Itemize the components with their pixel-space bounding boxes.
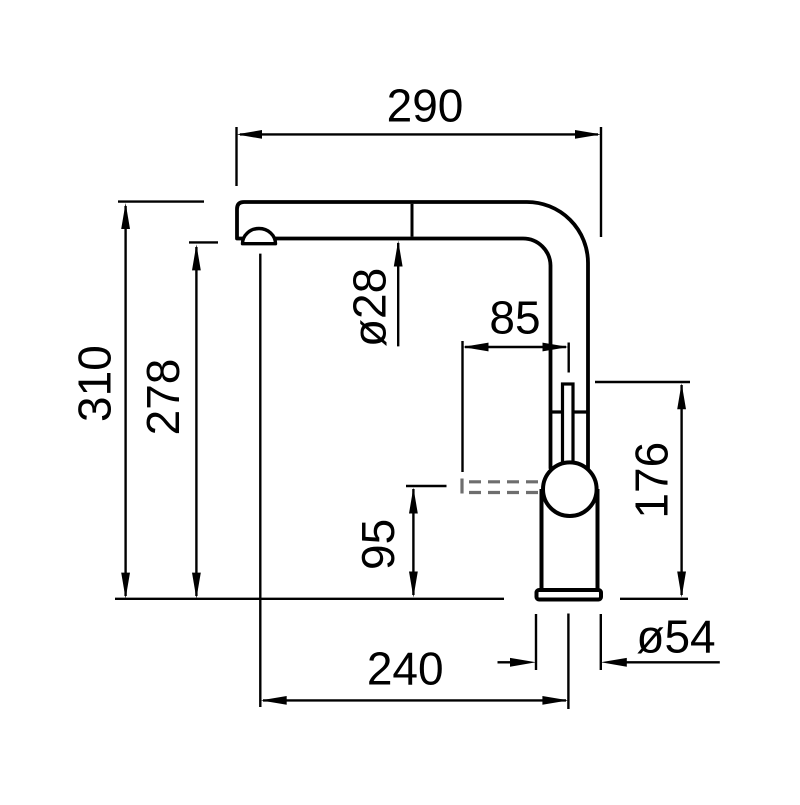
svg-text:310: 310 (69, 345, 121, 422)
dim o54 (498, 614, 720, 670)
faucet spout tube outline (237, 202, 588, 468)
svg-text:240: 240 (367, 643, 444, 695)
dim 310 (118, 202, 204, 596)
dim 278 (189, 242, 218, 596)
mixer ball (543, 462, 597, 516)
dim 95 (406, 486, 447, 595)
aerator dome (243, 229, 276, 244)
aerator projection line (259, 254, 261, 707)
dim 240 (263, 699, 566, 701)
pipe/body junction line (550, 410, 588, 413)
dim o28 arrow (397, 243, 399, 346)
svg-text:176: 176 (626, 442, 678, 519)
spray outline dashed (hidden position) (462, 479, 545, 494)
dim 290 (237, 127, 602, 237)
baseline left segment (115, 598, 504, 600)
spout sprayhead joint line (411, 204, 414, 237)
body centerline extension (567, 614, 569, 710)
svg-text:95: 95 (352, 519, 404, 570)
base flange (537, 590, 602, 600)
svg-text:ø28: ø28 (343, 268, 395, 347)
dim 176 (595, 382, 690, 595)
svg-text:85: 85 (489, 292, 540, 344)
svg-text:ø54: ø54 (636, 611, 715, 663)
body cylinder (540, 489, 544, 589)
baseline right segment (620, 598, 688, 600)
svg-text:290: 290 (387, 79, 464, 131)
svg-text:278: 278 (137, 359, 189, 436)
lever rod (563, 384, 574, 466)
dim 85 (463, 341, 569, 472)
